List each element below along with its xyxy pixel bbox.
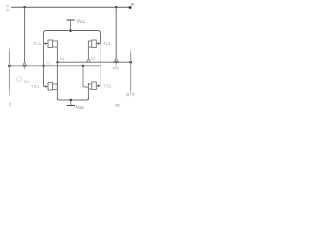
wire left terminal vertical bbox=[8, 48, 10, 53]
node junction dot on top rail left bbox=[23, 6, 25, 8]
transistor TL2 bbox=[92, 40, 97, 48]
gate arrowhead of TD1 bbox=[45, 85, 48, 88]
svg-text:VCC: VCC bbox=[77, 18, 86, 24]
svg-text:d: d bbox=[9, 102, 12, 108]
gate arrowhead of TL1 bbox=[45, 42, 48, 45]
wire Vcc rail with corners bbox=[44, 31, 101, 35]
power Vcc symbol bbox=[67, 19, 75, 21]
wire vertical from top rail left bbox=[24, 7, 26, 62]
node junction dot on top rail right bbox=[115, 6, 117, 8]
wire line B node N2 bbox=[9, 65, 100, 67]
svg-text:TA1: TA1 bbox=[23, 79, 31, 84]
wire left drain/source column bbox=[56, 48, 58, 101]
wire top rail bbox=[11, 6, 130, 8]
label faint circle left bbox=[17, 77, 22, 82]
node dot N1 bbox=[56, 61, 58, 63]
svg-text:TL2: TL2 bbox=[103, 41, 111, 46]
gate lead of TL1 bbox=[44, 43, 46, 45]
svg-text:TD2: TD2 bbox=[103, 84, 112, 89]
wire TL2 output down with arrow onto line A bbox=[87, 48, 89, 60]
access transistor TA1 arrow onto line B bbox=[22, 62, 24, 66]
wire TD2 source down bbox=[87, 90, 89, 100]
svg-text:N1: N1 bbox=[46, 62, 51, 66]
transistor TD1 bbox=[48, 83, 53, 91]
wire vertical from top rail right bbox=[115, 7, 117, 58]
wire right gate column upper bbox=[100, 33, 102, 44]
wire left gate column bbox=[43, 33, 45, 87]
access transistor TA2 arrow onto line A bbox=[114, 58, 117, 62]
label faint below right terminal bbox=[127, 93, 130, 96]
source/drain bracket of TD1 bbox=[56, 83, 58, 90]
svg-text:N2: N2 bbox=[90, 56, 96, 61]
source/drain bracket of TD2 bbox=[87, 83, 89, 90]
node dot line A right terminal bbox=[129, 61, 132, 64]
wire line A node N1 bbox=[58, 61, 131, 63]
node dot line B left terminal bbox=[8, 65, 11, 68]
gate arrowhead of TL2 bbox=[97, 42, 100, 45]
svg-text:TL1: TL1 bbox=[34, 41, 42, 46]
wire right gate column lower faint bbox=[100, 44, 102, 86]
node end dot of top rail bbox=[129, 6, 132, 9]
node dot bottom rail bbox=[70, 99, 73, 102]
source/drain bracket of TL1 bbox=[56, 41, 58, 48]
wire right terminal vertical bbox=[130, 49, 132, 53]
gate arrowhead of TD2 bbox=[97, 85, 100, 88]
label faint bottom-right bbox=[116, 104, 120, 107]
gate lead of TD1 bbox=[44, 86, 46, 88]
wire line B down to TD2 drain bbox=[83, 66, 88, 87]
transistor TD2 bbox=[92, 82, 97, 90]
svg-text:TD1: TD1 bbox=[31, 84, 40, 89]
power Vss symbol bbox=[70, 100, 72, 106]
gate lead of TL2 bbox=[99, 43, 100, 45]
gate lead of TD2 bbox=[99, 85, 101, 87]
svg-text:TA2: TA2 bbox=[112, 65, 120, 70]
label faint top-left bbox=[7, 5, 9, 7]
transistor TL1 bbox=[48, 40, 53, 48]
wire bottom rail bbox=[57, 97, 88, 100]
svg-text:VSS: VSS bbox=[76, 104, 85, 110]
label faint top-right bbox=[131, 3, 134, 5]
svg-text:N1: N1 bbox=[60, 56, 66, 61]
node dot line B to lower right transistor bbox=[82, 65, 84, 67]
node dot gate column on line B bbox=[42, 65, 44, 67]
source/drain bracket of TL2 bbox=[87, 41, 89, 48]
